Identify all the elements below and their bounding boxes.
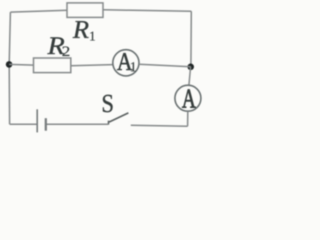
resistor R1: [67, 3, 103, 18]
battery positive plate long: [36, 109, 38, 132]
wire left lower: [8, 64, 10, 124]
ammeter A: [175, 85, 201, 111]
node junction left: [6, 61, 13, 68]
wire A1 to right junction: [139, 64, 191, 66]
label S: [103, 95, 113, 112]
wire bottom-right segment: [131, 124, 188, 127]
wire right upper: [190, 11, 192, 67]
ammeter A1: [113, 50, 139, 76]
wire junction to ammeter A: [189, 67, 191, 86]
switch S: [108, 113, 128, 125]
wire left upper: [9, 12, 10, 64]
wire battery to bottom-left corner: [10, 123, 37, 125]
wire R2 to ammeter A1: [71, 65, 113, 66]
wire switch to battery: [46, 123, 108, 125]
resistor R2: [34, 58, 71, 73]
wire top-right segment: [103, 10, 191, 11]
node junction right: [187, 64, 194, 71]
battery negative plate short: [45, 118, 47, 131]
label R1: [73, 21, 95, 40]
wire below ammeter A: [187, 111, 189, 126]
label R2: [47, 37, 69, 56]
wire top-left segment: [10, 10, 67, 12]
wire junction to resistor R2: [9, 63, 34, 66]
